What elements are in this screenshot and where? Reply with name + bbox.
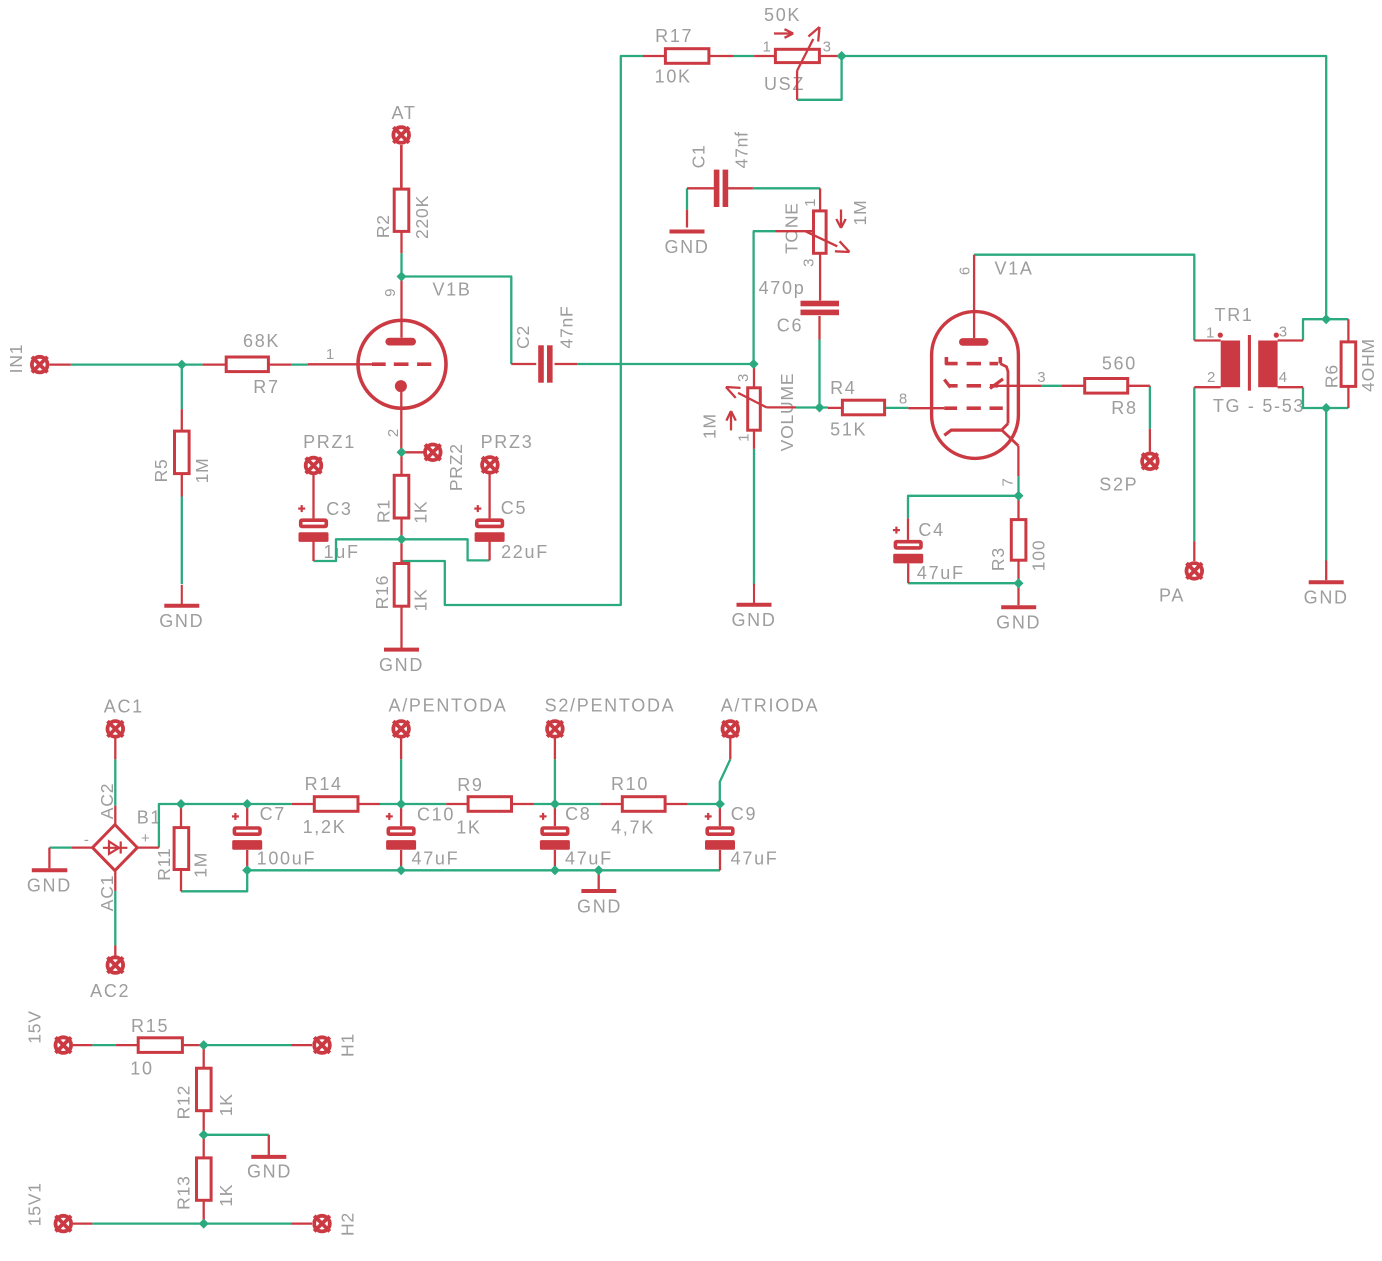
svg-text:3: 3	[735, 373, 752, 382]
svg-text:C6: C6	[777, 316, 803, 336]
svg-text:GND: GND	[1304, 588, 1349, 608]
svg-text:R14: R14	[305, 774, 343, 794]
svg-text:R6: R6	[1322, 364, 1342, 388]
svg-text:7: 7	[999, 478, 1016, 487]
svg-text:1: 1	[763, 39, 772, 56]
svg-text:TG - 5-53: TG - 5-53	[1213, 396, 1305, 416]
svg-text:22uF: 22uF	[501, 542, 549, 562]
svg-text:R5: R5	[151, 458, 171, 482]
svg-text:1K: 1K	[411, 501, 431, 524]
svg-text:AC1: AC1	[97, 875, 117, 911]
svg-text:C5: C5	[501, 498, 527, 518]
svg-text:H2: H2	[337, 1212, 357, 1236]
svg-text:R8: R8	[1111, 398, 1137, 418]
svg-text:470p: 470p	[759, 278, 806, 298]
svg-text:C9: C9	[731, 804, 757, 824]
svg-text:C4: C4	[918, 520, 944, 540]
svg-text:+: +	[141, 830, 150, 847]
svg-text:9: 9	[382, 288, 399, 297]
svg-text:1,2K: 1,2K	[303, 817, 347, 837]
svg-text:-: -	[84, 831, 89, 848]
svg-text:C3: C3	[326, 499, 352, 519]
svg-text:AC2: AC2	[97, 783, 117, 819]
svg-text:C2: C2	[513, 325, 533, 349]
svg-text:C8: C8	[565, 804, 591, 824]
svg-text:47uF: 47uF	[411, 849, 459, 869]
svg-text:3: 3	[800, 258, 817, 267]
svg-text:3: 3	[1037, 369, 1046, 386]
svg-text:4,7K: 4,7K	[611, 818, 655, 838]
svg-text:R1: R1	[373, 499, 393, 523]
svg-text:R15: R15	[131, 1016, 169, 1036]
svg-text:C10: C10	[417, 804, 455, 824]
svg-text:220K: 220K	[412, 195, 432, 239]
svg-text:GND: GND	[247, 1161, 292, 1181]
svg-text:10: 10	[130, 1059, 153, 1079]
svg-text:PA: PA	[1159, 585, 1185, 605]
svg-text:2: 2	[385, 428, 402, 437]
svg-text:1: 1	[1206, 324, 1215, 341]
svg-text:R13: R13	[174, 1175, 194, 1210]
svg-text:IN1: IN1	[6, 344, 26, 374]
svg-text:PRZ1: PRZ1	[303, 432, 356, 452]
svg-text:50K: 50K	[764, 5, 801, 25]
svg-text:1K: 1K	[216, 1184, 236, 1207]
svg-text:4OHM: 4OHM	[1358, 338, 1378, 392]
svg-text:47nf: 47nf	[732, 131, 752, 168]
svg-text:1: 1	[736, 433, 753, 442]
svg-text:1M: 1M	[192, 457, 212, 483]
svg-text:68K: 68K	[243, 331, 280, 351]
svg-text:R12: R12	[174, 1085, 194, 1120]
svg-text:1: 1	[802, 198, 819, 207]
svg-text:AC1: AC1	[104, 697, 144, 717]
svg-text:15V1: 15V1	[24, 1182, 44, 1226]
svg-text:A/PENTODA: A/PENTODA	[389, 696, 508, 716]
svg-text:15V: 15V	[24, 1010, 44, 1044]
svg-text:TR1: TR1	[1215, 305, 1254, 325]
svg-text:10K: 10K	[655, 67, 692, 87]
svg-text:TONE: TONE	[781, 202, 801, 254]
svg-text:R3: R3	[988, 547, 1008, 571]
svg-text:V1A: V1A	[994, 259, 1033, 279]
svg-text:PRZ3: PRZ3	[481, 432, 534, 452]
svg-text:R4: R4	[830, 378, 856, 398]
svg-text:2: 2	[1207, 369, 1216, 386]
svg-text:47uF: 47uF	[731, 849, 779, 869]
svg-text:8: 8	[899, 391, 908, 408]
svg-text:C1: C1	[688, 144, 708, 168]
svg-text:S2P: S2P	[1099, 474, 1138, 494]
svg-text:AC2: AC2	[90, 981, 130, 1001]
svg-text:C7: C7	[260, 804, 286, 824]
svg-text:1M: 1M	[850, 200, 870, 226]
svg-text:47nF: 47nF	[557, 305, 577, 348]
svg-text:GND: GND	[159, 611, 204, 631]
svg-text:47uF: 47uF	[565, 849, 613, 869]
svg-text:R7: R7	[253, 377, 279, 397]
svg-text:GND: GND	[577, 897, 622, 917]
svg-text:560: 560	[1102, 354, 1137, 374]
svg-text:47uF: 47uF	[917, 563, 965, 583]
svg-text:1M: 1M	[191, 852, 211, 878]
svg-text:1K: 1K	[411, 588, 431, 611]
svg-text:A/TRIODA: A/TRIODA	[721, 696, 820, 716]
svg-text:GND: GND	[731, 610, 776, 630]
svg-text:1K: 1K	[216, 1093, 236, 1116]
svg-text:R10: R10	[611, 774, 649, 794]
svg-text:AT: AT	[391, 103, 416, 123]
svg-text:V1B: V1B	[432, 280, 471, 300]
svg-text:VOLUME: VOLUME	[777, 373, 797, 452]
svg-text:R2: R2	[373, 214, 393, 238]
svg-text:R9: R9	[457, 775, 483, 795]
svg-text:6: 6	[957, 266, 974, 275]
svg-text:R11: R11	[154, 847, 174, 880]
svg-text:PRZ2: PRZ2	[446, 443, 466, 491]
svg-text:100: 100	[1029, 540, 1049, 572]
svg-text:R17: R17	[655, 26, 693, 46]
svg-text:USZ: USZ	[764, 74, 805, 94]
svg-text:3: 3	[1279, 323, 1288, 340]
svg-text:GND: GND	[664, 237, 709, 257]
svg-text:GND: GND	[379, 655, 424, 675]
svg-text:4: 4	[1279, 369, 1288, 386]
svg-text:GND: GND	[27, 876, 72, 896]
svg-text:51K: 51K	[830, 420, 867, 440]
svg-text:S2/PENTODA: S2/PENTODA	[545, 696, 676, 716]
svg-text:GND: GND	[996, 613, 1041, 633]
svg-text:3: 3	[823, 38, 832, 55]
svg-text:1K: 1K	[456, 818, 481, 838]
svg-text:1M: 1M	[700, 413, 720, 439]
svg-text:1uF: 1uF	[324, 542, 360, 562]
svg-text:100uF: 100uF	[257, 849, 317, 869]
svg-text:H1: H1	[337, 1033, 357, 1057]
svg-text:R16: R16	[372, 575, 392, 610]
svg-text:1: 1	[326, 346, 335, 363]
